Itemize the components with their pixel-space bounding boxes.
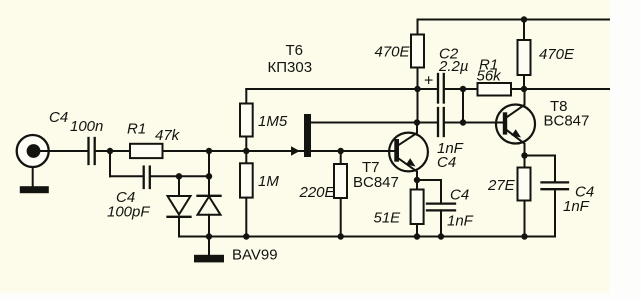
svg-text:BC847: BC847 <box>353 174 399 191</box>
wire 1M5 bottom <box>245 137 247 152</box>
wire diode D1 top <box>178 176 180 196</box>
transistor T8 emitter <box>507 130 525 155</box>
wire pin to C4 over ring <box>34 150 87 152</box>
wire 470E left down <box>417 68 419 123</box>
wire T8 emitter cap branch <box>525 155 556 157</box>
wire 1M bottom <box>245 198 247 237</box>
wire R1 to gate arrow <box>163 150 304 152</box>
node main x110 <box>107 148 113 154</box>
transistor T8 circle <box>496 105 535 144</box>
wire 220E top <box>340 151 342 164</box>
node drain rail x463 <box>460 119 466 125</box>
transistor T7 collector <box>399 123 417 145</box>
wire 100pF branch left <box>110 175 143 177</box>
node bottom x246 <box>243 233 249 239</box>
node bottom x417 <box>414 233 420 239</box>
node bottom x441 <box>438 233 444 239</box>
ground (BAV99) <box>194 255 224 263</box>
wire 220E bottom <box>340 198 342 237</box>
ground (input) <box>20 186 49 193</box>
wire 100pF branch vertical left <box>109 151 111 176</box>
wire 470E right down <box>523 75 525 89</box>
node bottom x524 <box>521 233 527 239</box>
resistor 1M5 <box>240 104 253 137</box>
input connector gnd wire <box>32 167 34 186</box>
wire top rail to 470E right <box>523 20 525 41</box>
wire mid rail segment B <box>445 88 478 90</box>
svg-text:56k: 56k <box>477 68 503 85</box>
wire diode D2 bottom <box>208 215 210 237</box>
transistor T7 emitter <box>399 159 417 180</box>
node main x209 <box>206 148 212 154</box>
wire 51E top <box>416 180 418 190</box>
input connector pin <box>27 144 41 158</box>
svg-text:C4: C4 <box>49 109 68 126</box>
wire mid rail segment C <box>511 88 609 90</box>
wire 27E bottom <box>524 201 526 237</box>
wire drain rail segment A <box>311 122 437 124</box>
wire node junction vertical <box>208 151 210 176</box>
transistor T8 emitter arrow <box>511 129 521 137</box>
resistor 470E (right) <box>518 40 531 75</box>
diode D1 (BAV99 a) <box>168 196 191 215</box>
resistor 220E <box>334 164 347 198</box>
wire 27E top <box>524 156 526 168</box>
svg-text:1M: 1M <box>258 173 279 190</box>
svg-text:27E: 27E <box>487 177 516 194</box>
wire mid rail segment A <box>246 88 436 90</box>
svg-text:BC847: BC847 <box>544 113 590 130</box>
node 100pF x209 <box>206 173 212 179</box>
node bottom x341 <box>338 233 344 239</box>
resistor 470E (left) <box>411 35 424 68</box>
resistor 1M <box>240 163 253 197</box>
transistor T8 collector <box>507 89 525 117</box>
svg-text:2.2µ: 2.2µ <box>438 58 469 75</box>
svg-text:1M5: 1M5 <box>258 113 288 130</box>
wire 100pF branch right <box>151 175 209 177</box>
svg-text:220E: 220E <box>299 184 336 201</box>
svg-text:R1: R1 <box>127 121 146 138</box>
svg-text:1nF: 1nF <box>563 198 590 215</box>
wire gnd stub BAV99 <box>208 237 210 256</box>
svg-text:470E: 470E <box>375 44 411 61</box>
svg-text:51E: 51E <box>374 210 402 227</box>
transistor T7 emitter arrow <box>406 158 416 166</box>
transistor T8 base bar <box>503 112 507 134</box>
wire emitter cap branch <box>417 179 441 181</box>
svg-text:T6: T6 <box>286 42 304 59</box>
transistor T6 source wire <box>311 150 394 152</box>
svg-text:+: + <box>424 73 433 90</box>
svg-text:100pF: 100pF <box>107 204 150 221</box>
capacitor C4 1nF plates (feedback) <box>437 108 439 136</box>
transistor T7 circle <box>389 133 428 172</box>
transistor T7 base bar <box>394 139 399 162</box>
node drain rail x417 <box>414 119 420 125</box>
svg-text:КП303: КП303 <box>268 59 313 76</box>
node 100pF x179 <box>176 173 182 179</box>
wire 1M5 top <box>245 89 247 104</box>
wire bottom rail <box>179 236 555 238</box>
node top rail / 470E right <box>521 16 527 22</box>
wire C4 to R1 <box>96 150 130 152</box>
node mid rail x524 <box>521 86 527 92</box>
resistor 27E <box>518 168 531 201</box>
capacitor C4 1nF (T7 emitter) plates <box>427 202 455 204</box>
node mid rail x463 <box>460 86 466 92</box>
node main x341 <box>338 148 344 154</box>
wire top rail to R2 470E <box>417 20 419 35</box>
node mid rail x417 <box>414 86 420 92</box>
wire diode D2 top <box>208 176 210 196</box>
wire 1M top <box>245 151 247 163</box>
resistor 51E <box>411 190 424 225</box>
transistor T6 channel bar <box>304 114 311 157</box>
capacitor C4 1nF (T8 emitter) plates <box>542 181 569 183</box>
input connector circle <box>17 135 49 167</box>
svg-text:BAV99: BAV99 <box>232 247 278 264</box>
svg-text:470E: 470E <box>539 46 575 63</box>
resistor R1 56k <box>478 83 512 96</box>
node main x246 <box>243 148 249 154</box>
node bottom x209 <box>206 233 212 239</box>
node T7 emitter <box>414 177 420 183</box>
wire 51E bottom <box>416 224 418 237</box>
wire top rail <box>418 19 610 21</box>
transistor T6 gate arrow <box>291 146 300 155</box>
capacitor C4 100pF plates <box>143 167 145 188</box>
svg-text:C4: C4 <box>437 154 456 171</box>
svg-text:100n: 100n <box>70 118 103 135</box>
wire cap join vertical <box>462 89 464 123</box>
capacitor C2 2.2u plates <box>437 74 439 103</box>
capacitor C4 100n plates <box>87 138 89 164</box>
wire input to C4 <box>49 150 88 152</box>
diode D2 (BAV99 b) <box>198 195 221 197</box>
svg-text:47k: 47k <box>155 127 181 144</box>
wire diode D1 bottom <box>178 217 180 237</box>
wire drain rail segment B (to T8 base) <box>445 122 503 124</box>
resistor R1 47k <box>130 144 163 158</box>
node T8 emitter <box>521 152 527 158</box>
svg-text:1nF: 1nF <box>447 213 474 230</box>
svg-text:C4: C4 <box>450 187 469 204</box>
